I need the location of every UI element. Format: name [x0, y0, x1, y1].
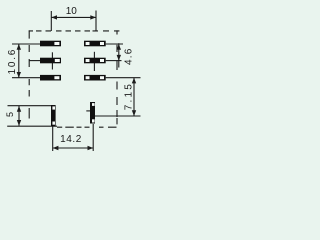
svg-text:14.2: 14.2 — [60, 134, 82, 145]
svg-text:10.6: 10.6 — [7, 48, 18, 75]
svg-text:5: 5 — [5, 112, 15, 117]
svg-text:7.15: 7.15 — [123, 82, 134, 110]
svg-text:4.6: 4.6 — [124, 47, 135, 65]
svg-text:10: 10 — [66, 6, 78, 17]
